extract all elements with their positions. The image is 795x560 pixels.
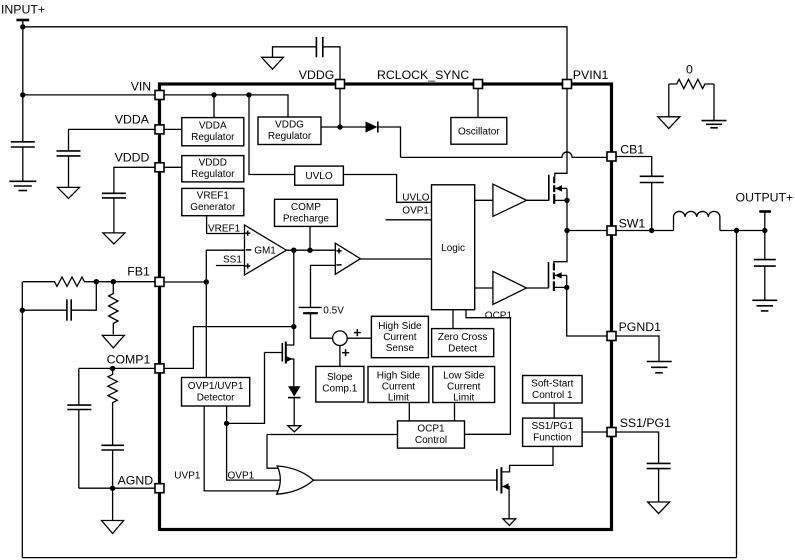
- wire COMP to COMP1 pin: [164, 327, 294, 369]
- wire logic to high driver: [475, 199, 493, 201]
- svg-text:VDDD: VDDD: [199, 158, 227, 169]
- wire left sense up to FB network: [21, 310, 23, 557]
- resistor R0 (0 ohm net-tie): [669, 79, 714, 88]
- svg-text:OCP1: OCP1: [417, 424, 445, 435]
- wire R0 left lead: [668, 84, 670, 117]
- wire CB1 pin to boot cap: [616, 157, 652, 177]
- node junction output: [762, 228, 767, 233]
- block VREF1 Generator: [182, 188, 244, 215]
- svg-text:COMP1: COMP1: [107, 352, 151, 366]
- block Soft-Start Control 1: [523, 376, 583, 404]
- block VDDD Regulator: [182, 156, 244, 182]
- node junction precharge: [307, 248, 312, 253]
- wire FB1 pin rail internal: [164, 281, 206, 283]
- ground triangle (VDDG cap): [262, 57, 284, 69]
- pin VDDD: [155, 163, 164, 172]
- wire VDDD pin to regulator: [164, 166, 182, 168]
- ground triangle (SS1 cap): [648, 502, 670, 514]
- wire LS current limit to OCP1 control: [454, 403, 456, 421]
- node junction M2 source: [564, 285, 569, 290]
- wire M1 source: [554, 199, 567, 201]
- wire VDDG pin down: [339, 89, 341, 128]
- wire OR gate output to Q3 gate: [314, 479, 497, 481]
- svg-text:VREF1: VREF1: [208, 223, 241, 234]
- pin AGND: [155, 484, 164, 493]
- node junction VDDG: [337, 124, 342, 129]
- pin PVIN1: [563, 80, 572, 89]
- wire boot cap to SW rail: [651, 183, 653, 231]
- resistor R_FB (series): [23, 277, 97, 286]
- wire VREF1 generator output: [207, 216, 245, 234]
- arrow Q1 source: [286, 356, 293, 362]
- wire M2 source: [554, 286, 567, 288]
- node junction FB divider: [111, 279, 116, 284]
- ground triangle small (D2): [288, 426, 301, 432]
- svg-text:High Side: High Side: [377, 370, 421, 381]
- svg-text:OVP1: OVP1: [228, 470, 255, 481]
- label GM1 minus marker: [246, 249, 252, 251]
- wire M2 source to PGND1 pin: [567, 275, 607, 336]
- ground triangle (FB divider): [102, 335, 124, 348]
- svg-text:RCLOCK_SYNC: RCLOCK_SYNC: [377, 68, 469, 82]
- wire D2 to ground: [293, 398, 295, 426]
- wire cap branch right lead: [71, 282, 96, 311]
- block SS1/PG1 Function: [523, 418, 583, 446]
- node junction UVLO tap: [246, 92, 251, 97]
- wire R0 right lead: [713, 84, 715, 120]
- svg-text:UVP1: UVP1: [174, 470, 201, 481]
- wire tap to UVLO block: [249, 95, 295, 175]
- transistor M2 channel segments: [553, 264, 555, 271]
- wire VDDG regulator to boot node: [321, 126, 340, 128]
- ground earth (R0 right): [702, 120, 727, 122]
- pin VDDG: [336, 80, 345, 89]
- svg-text:Comp.1: Comp.1: [322, 383, 357, 394]
- pin COMP1: [155, 364, 164, 373]
- block OVP1/UVP1 Detector: [182, 378, 250, 407]
- wire COMP node to precharge FET: [287, 327, 294, 345]
- wire C_VDDG left lead to ground: [273, 47, 317, 58]
- wire M1 to SW node: [566, 188, 568, 230]
- wire SS1/PG1 function to pin: [582, 431, 607, 433]
- svg-text:Zero Cross: Zero Cross: [438, 332, 487, 343]
- ground triangle (VDDD): [103, 233, 125, 244]
- block COMP Precharge: [275, 199, 338, 226]
- svg-text:SW1: SW1: [619, 216, 646, 230]
- block UVLO: [295, 166, 344, 185]
- svg-text:0.5V: 0.5V: [323, 305, 344, 316]
- node junction VIN rail: [20, 92, 25, 97]
- node junction sense wire: [734, 228, 739, 233]
- capacitor C_COMP: [101, 444, 124, 446]
- node junction COMP: [291, 248, 296, 253]
- capacitor C_COMP2: [67, 404, 91, 406]
- label summing plus right: [354, 332, 361, 334]
- node junction FB cap branch: [94, 279, 99, 284]
- node junction COMP1: [110, 366, 115, 371]
- wire C_VDDD to ground: [113, 198, 115, 233]
- ground earth (PGND1): [647, 361, 672, 363]
- capacitor C_VDDA: [57, 150, 81, 152]
- svg-text:Regulator: Regulator: [191, 169, 235, 180]
- svg-text:AGND: AGND: [118, 473, 154, 487]
- svg-text:Detect: Detect: [448, 343, 477, 354]
- svg-text:CB1: CB1: [620, 142, 644, 156]
- wire detector OVP1 down to OR gate: [227, 406, 281, 480]
- wire comparator minus to 0.5V: [311, 265, 336, 307]
- transistor M2 (low-side NMOS) gate bar: [548, 262, 550, 288]
- wire SS1 net stub: [216, 265, 245, 267]
- IC U1 outline: [160, 84, 612, 530]
- wire FB left node down: [21, 282, 23, 311]
- svg-text:VDDD: VDDD: [115, 151, 150, 165]
- svg-text:VDDA: VDDA: [115, 113, 150, 127]
- wire inductor to output node: [720, 230, 765, 232]
- pin RCLOCK_SYNC: [474, 80, 483, 89]
- block High Side Current Limit: [368, 367, 429, 403]
- svg-text:Control: Control: [415, 435, 447, 446]
- block Zero Cross Detect: [432, 329, 494, 357]
- pin PGND1: [607, 332, 616, 341]
- wire detector UVP1 down to OR gate: [204, 406, 279, 491]
- ground earth (input cap): [9, 180, 36, 182]
- capacitor C_VDDD: [102, 192, 126, 194]
- ground triangle (VDDA): [58, 187, 80, 198]
- node junction OVP1: [224, 421, 229, 426]
- resistor R_COMP: [108, 368, 117, 445]
- wire FB1 pin rail: [96, 281, 155, 283]
- buffer A1 (high-side driver): [493, 184, 527, 216]
- wire detector OVP1 output to Q1 gate: [227, 353, 265, 424]
- wire FB1 to OVP/UVP detector: [205, 282, 207, 378]
- svg-text:SS1/PG1: SS1/PG1: [531, 421, 573, 432]
- svg-text:Current: Current: [382, 381, 416, 392]
- svg-text:Regulator: Regulator: [268, 131, 312, 142]
- capacitor C_SS1: [647, 462, 671, 464]
- capacitor C_FB (feedforward): [66, 299, 68, 320]
- capacitor C_VDDG (top): [315, 37, 317, 57]
- wire OCP1 feedback to logic: [465, 310, 511, 435]
- svg-text:VDDA: VDDA: [199, 120, 227, 131]
- wire COMP1 pin rail: [79, 367, 155, 369]
- wire COMP precharge stub: [309, 226, 311, 250]
- wire SS1/PG1 function to Q3 drain: [501, 446, 553, 472]
- port OUTPUT+ terminal bar: [759, 210, 771, 213]
- svg-text:VREF1: VREF1: [197, 190, 230, 201]
- block Slope Comp.1: [316, 366, 364, 402]
- block VDDA Regulator: [182, 118, 244, 146]
- wire HS current limit to OCP1 control: [408, 403, 410, 421]
- svg-text:Current: Current: [383, 332, 417, 343]
- wire logic to zero cross detect: [452, 310, 454, 329]
- wire M2 gate lead: [527, 287, 549, 289]
- wire SS1/PG1 pin to cap: [616, 432, 659, 463]
- wire boot diode cathode lead: [378, 127, 401, 157]
- pin FB1: [155, 277, 164, 286]
- wire C_SS1 to ground: [658, 469, 660, 502]
- svg-text:Detector: Detector: [197, 392, 235, 403]
- wire GM1 output rail: [286, 249, 335, 251]
- svg-text:INPUT+: INPUT+: [1, 3, 45, 17]
- svg-text:VDDG: VDDG: [275, 120, 304, 131]
- wire C_COMP2 to AGND rail: [78, 410, 80, 489]
- node junction COMP low: [291, 324, 296, 329]
- svg-text:OVP1/UVP1: OVP1/UVP1: [188, 381, 244, 392]
- wire output node to cap: [764, 231, 766, 260]
- wire PGND1 pin to ground: [616, 336, 659, 361]
- transistor Q3 (SS discharge) gate bar: [496, 469, 498, 491]
- wire SW node down to M2 drain: [554, 231, 567, 264]
- node junction boot cap: [649, 228, 654, 233]
- label GM1 plus bottom: [245, 265, 250, 267]
- label comparator minus: [336, 264, 341, 266]
- svg-text:Function: Function: [533, 433, 571, 444]
- block Oscillator: [451, 118, 507, 145]
- wire output sense down right side: [736, 231, 738, 558]
- wire Q1 source to diode: [286, 359, 294, 386]
- wire soft-start to SS1/PG1 function: [553, 403, 555, 418]
- svg-text:0: 0: [686, 63, 693, 77]
- svg-text:OCP1: OCP1: [485, 310, 513, 321]
- label comparator plus: [336, 250, 341, 252]
- wire C_VDDA to ground: [68, 156, 70, 188]
- node junction FB1: [204, 279, 209, 284]
- svg-text:VIN: VIN: [131, 80, 152, 94]
- wire M1 body line with arrow: [554, 187, 567, 189]
- wire VDDA pin to regulator: [164, 128, 182, 130]
- battery V1 0.5V: [299, 306, 322, 308]
- node junction VDDA reg tap: [211, 92, 216, 97]
- wire COMP1 left cap branch: [78, 368, 80, 405]
- wire top rail INPUT+ to PVIN1: [23, 27, 567, 80]
- diode D1 (bootstrap): [366, 122, 378, 133]
- summing junction S1: [333, 331, 348, 346]
- ground triangle small (Q3): [503, 519, 516, 526]
- resistor R_FB2 (to ground): [109, 282, 118, 335]
- wire SW rail to pin: [567, 230, 607, 232]
- wire AGND to ground: [112, 488, 114, 520]
- transistor M1 channel segments: [553, 177, 555, 184]
- wire 0.5V to summing node: [311, 313, 333, 338]
- wire comparator output to logic: [360, 258, 431, 260]
- wire OUTPUT+ stub: [764, 212, 766, 231]
- wire VIN internal rail: [164, 95, 288, 118]
- svg-text:PVIN1: PVIN1: [573, 68, 609, 82]
- wire logic to low driver: [475, 287, 493, 289]
- svg-text:SS1/PG1: SS1/PG1: [620, 416, 671, 430]
- wire tap to VDDA regulator: [213, 95, 215, 118]
- svg-text:Regulator: Regulator: [191, 132, 235, 143]
- wire boot diode anode lead: [340, 126, 366, 128]
- svg-text:Low Side: Low Side: [443, 370, 485, 381]
- svg-text:UVLO: UVLO: [305, 171, 332, 182]
- wire OCP1 control to OR/left rail: [267, 434, 398, 436]
- wire VDDD pin to cap: [114, 167, 155, 193]
- block VDDG Regulator: [258, 117, 321, 145]
- svg-text:Oscillator: Oscillator: [458, 126, 500, 137]
- wire summing to current sense: [347, 337, 371, 339]
- node junction FB left: [20, 308, 25, 313]
- label summing plus bottom: [342, 352, 349, 354]
- svg-text:Soft-Start: Soft-Start: [531, 379, 573, 390]
- wire UVLO to logic: [343, 175, 431, 203]
- pin VDDA: [155, 125, 164, 134]
- svg-text:Limit: Limit: [453, 392, 474, 403]
- ground triangle (R0 left): [658, 117, 680, 129]
- wire C_OUT to ground: [764, 266, 766, 300]
- wire slope comp to summing: [339, 346, 341, 367]
- svg-text:Generator: Generator: [190, 202, 236, 213]
- svg-text:OVP1: OVP1: [402, 205, 429, 216]
- buffer A2 (low-side driver): [493, 271, 527, 304]
- ground earth (output cap): [752, 299, 777, 301]
- op-amp GM1 (error amplifier): [245, 225, 287, 275]
- wire C_IN to ground: [22, 147, 24, 181]
- wire M2 body line with arrow: [554, 274, 567, 276]
- block High Side Current Sense: [371, 316, 428, 357]
- wire COMP node down: [293, 250, 295, 326]
- svg-text:Control 1: Control 1: [532, 390, 573, 401]
- wire cap branch left lead: [22, 309, 67, 311]
- svg-text:Slope: Slope: [327, 372, 353, 383]
- label GM1 plus top: [245, 232, 250, 234]
- comparator U2 (PWM): [335, 243, 360, 274]
- svg-text:OUTPUT+: OUTPUT+: [736, 191, 794, 205]
- block OCP1 Control: [398, 421, 465, 448]
- wire Q1 gate lead: [265, 352, 283, 354]
- block Low Side Current Limit: [433, 367, 495, 403]
- capacitor C_CB1: [640, 175, 664, 177]
- inductor L1: [674, 211, 720, 230]
- svg-text:High Side: High Side: [378, 321, 422, 332]
- node junction top rail: [20, 24, 25, 29]
- svg-text:SS1: SS1: [223, 254, 242, 265]
- wire bootstrap rail to CB1 pin (with hop): [401, 152, 608, 157]
- wire C_VDDG right lead to VDDG pin: [323, 47, 340, 80]
- or-gate G1: [277, 466, 314, 494]
- wire AGND pin rail: [79, 487, 155, 489]
- capacitor C_OUT: [754, 259, 776, 261]
- capacitor C_IN: [11, 141, 35, 143]
- svg-text:PGND1: PGND1: [619, 320, 662, 334]
- transistor Q1 (precharge FET): [281, 343, 283, 362]
- wire SW1 pin to inductor: [616, 230, 674, 232]
- svg-text:Logic: Logic: [441, 243, 465, 254]
- wire FB1 to GM1 inverting input: [206, 250, 244, 282]
- svg-text:VDDG: VDDG: [299, 68, 335, 82]
- wire bottom sense rail: [22, 557, 736, 559]
- node junction M1 source: [564, 198, 569, 203]
- svg-text:Limit: Limit: [388, 392, 409, 403]
- svg-text:FB1: FB1: [127, 264, 150, 278]
- svg-text:Precharge: Precharge: [283, 213, 330, 224]
- wire OVP1 net stub to logic: [386, 219, 432, 221]
- wire VIN rail to VIN pin: [23, 94, 155, 96]
- pin VIN: [155, 91, 164, 100]
- pin CB1: [607, 152, 616, 161]
- node junction SW internal: [564, 228, 569, 233]
- wire OCP path to OR gate top input: [267, 435, 279, 469]
- block Logic: [432, 185, 475, 310]
- port INPUT+ terminal bar: [16, 19, 29, 22]
- pin SS1/PG1: [607, 428, 616, 437]
- wire PVIN1 pin down to M1 drain: [555, 89, 567, 177]
- ground triangle (AGND): [102, 521, 124, 534]
- transistor Q3 channel bar: [500, 467, 502, 493]
- pin SW1: [607, 226, 616, 235]
- svg-text:Current: Current: [447, 381, 481, 392]
- transistor M1 (high-side NMOS) gate bar: [548, 175, 550, 201]
- wire oscillator stub: [477, 89, 479, 118]
- svg-text:GM1: GM1: [254, 245, 276, 256]
- wire INPUT+ vertical down to input cap: [22, 20, 24, 142]
- wire C_COMP to AGND rail: [112, 450, 114, 488]
- wire M1 gate lead: [527, 199, 549, 201]
- wire Q3 source with arrow: [501, 487, 509, 519]
- diode D2 (clamp): [288, 386, 301, 396]
- svg-text:UVLO: UVLO: [402, 193, 429, 204]
- wire VDDA pin to cap: [69, 129, 156, 151]
- node junction AGND: [110, 486, 115, 491]
- svg-text:COMP: COMP: [291, 202, 321, 213]
- svg-text:Sense: Sense: [386, 343, 415, 354]
